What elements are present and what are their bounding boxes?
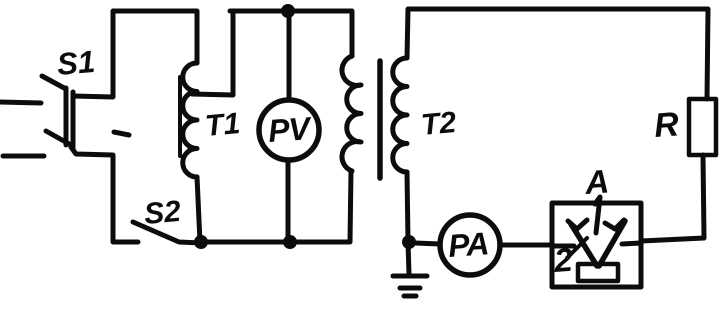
svg-text:2: 2 xyxy=(552,241,575,279)
ground xyxy=(393,276,427,296)
wire T2 secondary top to resistor R via top rail xyxy=(407,9,708,99)
junction dot S2/T1 xyxy=(194,235,208,249)
resistor R xyxy=(689,99,716,155)
svg-text:T2: T2 xyxy=(420,106,458,142)
svg-text:PA: PA xyxy=(447,225,489,264)
wire middle top rail down to T2 primary top xyxy=(230,11,352,56)
wire PA to device A box xyxy=(500,243,552,248)
device A enclosure box xyxy=(552,203,641,287)
transformer T1 core xyxy=(178,77,182,156)
crucible funnel xyxy=(568,220,625,266)
wire ground junction to PA xyxy=(415,243,440,244)
svg-text:A: A xyxy=(583,162,610,201)
connector S1 plug and socket xyxy=(0,76,73,156)
ammeter PA xyxy=(440,215,500,275)
svg-text:S2: S2 xyxy=(143,195,183,231)
transformer T2 primary winding xyxy=(342,56,361,171)
transformer T2 core xyxy=(377,61,383,178)
melt container xyxy=(578,264,618,281)
wire PV bottom lead xyxy=(286,160,291,242)
wire S1 upper contact to left top rail and T1 top xyxy=(73,11,197,97)
switch S2 blade xyxy=(133,222,201,243)
svg-text:T1: T1 xyxy=(204,107,242,143)
wire T2 secondary bottom lead to ground xyxy=(407,172,409,274)
wire resistor bottom to arc box right electrode xyxy=(641,155,704,241)
junction dot T2 secondary bottom xyxy=(402,235,416,249)
label 2 with leader xyxy=(552,238,587,279)
wire right electrode inside box xyxy=(622,243,641,244)
wire T1 tap to middle top rail xyxy=(192,11,233,95)
svg-text:PV: PV xyxy=(267,110,314,149)
wire S1 lower contact down to S2 stub xyxy=(71,147,138,242)
dash mark xyxy=(114,132,129,135)
transformer T1 winding (4 bumps, tap after first) xyxy=(183,63,197,177)
wire bottom rail up to T2 primary bottom xyxy=(200,171,351,242)
junction dot PV bottom xyxy=(283,235,297,249)
node junction dot xyxy=(281,4,295,18)
svg-text:S1: S1 xyxy=(56,44,97,82)
svg-text:R: R xyxy=(653,105,681,145)
wire PV top lead xyxy=(287,11,292,100)
voltmeter PV xyxy=(259,100,319,160)
wire left electrode inside box xyxy=(553,244,574,249)
transformer T2 secondary winding xyxy=(393,58,407,172)
wire T1 bottom lead xyxy=(197,177,200,242)
electrode pointer 1 xyxy=(595,197,600,233)
